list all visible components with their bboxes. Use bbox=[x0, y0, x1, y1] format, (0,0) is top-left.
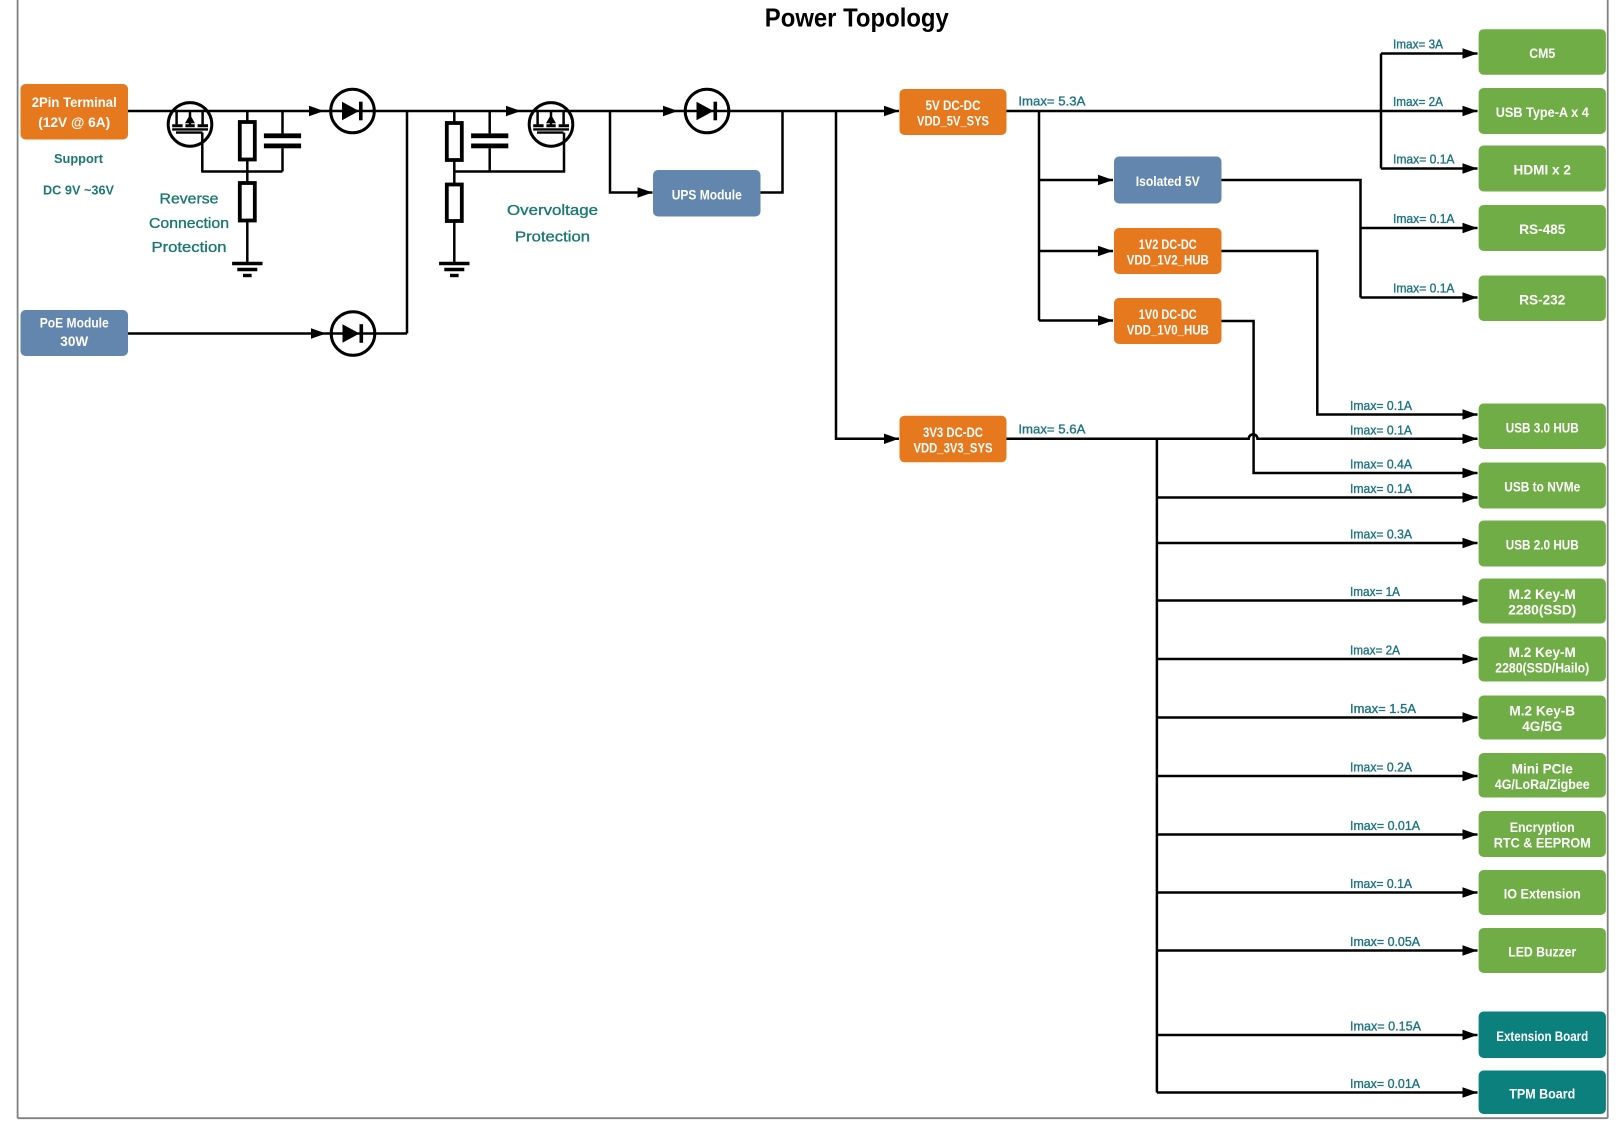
svg-text:Imax= 0.3A: Imax= 0.3A bbox=[1350, 527, 1412, 542]
resistor R2 bbox=[240, 183, 255, 221]
svg-text:Imax= 2A: Imax= 2A bbox=[1393, 94, 1443, 109]
svg-text:PoE Module: PoE Module bbox=[40, 316, 109, 331]
block HDMI x 2 bbox=[1479, 146, 1606, 192]
svg-text:(12V @ 6A): (12V @ 6A) bbox=[38, 115, 110, 130]
wire branch to RS-232 bbox=[1361, 296, 1478, 299]
wire R1-R2 link bbox=[246, 160, 249, 184]
arrowhead into USB to NVMe (2) bbox=[1463, 492, 1478, 502]
arrowhead into 5V DC-DC bbox=[884, 106, 899, 116]
wire 1V0 output to USB to NVMe bbox=[1222, 321, 1478, 473]
block USB Type-A x 4 bbox=[1479, 88, 1606, 134]
svg-text:M.2 Key-B: M.2 Key-B bbox=[1509, 704, 1575, 719]
svg-text:30W: 30W bbox=[60, 334, 88, 349]
svg-text:Imax= 0.1A: Imax= 0.1A bbox=[1393, 211, 1455, 226]
svg-text:Imax= 3A: Imax= 3A bbox=[1393, 37, 1443, 52]
arrowhead into USB 3.0 HUB (2) bbox=[1463, 434, 1478, 444]
wire branch to Extension Board bbox=[1157, 1034, 1478, 1037]
block IO Extension bbox=[1479, 870, 1606, 915]
wire R4 to ground bbox=[453, 221, 456, 264]
svg-text:Mini PCIe: Mini PCIe bbox=[1512, 761, 1574, 776]
svg-text:USB Type-A x 4: USB Type-A x 4 bbox=[1496, 105, 1589, 120]
wire branch to IO Extension bbox=[1157, 891, 1478, 894]
wire R1 stem top bbox=[246, 111, 249, 122]
svg-text:UPS Module: UPS Module bbox=[672, 187, 742, 202]
svg-text:4G/5G: 4G/5G bbox=[1522, 719, 1562, 734]
wire PoE module output bbox=[128, 332, 407, 335]
wire 5V fanout vertical bbox=[1038, 110, 1041, 321]
arrowhead into USB to NVMe (1) bbox=[1463, 468, 1478, 478]
arrowhead into 3V3 DC-DC bbox=[884, 434, 899, 444]
svg-text:Imax= 0.01A: Imax= 0.01A bbox=[1350, 1076, 1420, 1091]
svg-text:USB 3.0 HUB: USB 3.0 HUB bbox=[1506, 420, 1579, 435]
wire UPS return bbox=[761, 111, 783, 193]
arrowhead into LED Buzzer bbox=[1463, 945, 1478, 955]
svg-text:Imax= 0.15A: Imax= 0.15A bbox=[1350, 1019, 1421, 1034]
wire RC junction stage1 bbox=[201, 170, 282, 173]
svg-text:Imax= 0.1A: Imax= 0.1A bbox=[1350, 481, 1412, 496]
svg-text:Imax= 0.2A: Imax= 0.2A bbox=[1350, 760, 1412, 775]
arrowhead into UPS Module bbox=[638, 187, 653, 197]
svg-text:VDD_1V2_HUB: VDD_1V2_HUB bbox=[1127, 253, 1209, 268]
wire branch to CM5 bbox=[1381, 52, 1478, 55]
svg-text:RTC & EEPROM: RTC & EEPROM bbox=[1494, 836, 1591, 851]
block USB to NVMe bbox=[1479, 463, 1606, 509]
arrowhead into 1V0 DC-DC bbox=[1098, 315, 1113, 325]
wire branch to M.2 Key-B bbox=[1157, 716, 1478, 719]
block 3V3 DC-DC converter bbox=[900, 416, 1007, 463]
svg-text:Imax= 0.1A: Imax= 0.1A bbox=[1350, 398, 1412, 413]
wire branch to 1V0 DC-DC bbox=[1039, 319, 1113, 322]
svg-text:TPM Board: TPM Board bbox=[1509, 1086, 1575, 1101]
svg-text:Imax= 0.1A: Imax= 0.1A bbox=[1393, 152, 1455, 167]
svg-text:Imax= 0.4A: Imax= 0.4A bbox=[1350, 457, 1412, 472]
resistor R3 bbox=[447, 123, 462, 160]
block M.2 Key-M 2280(SSD) bbox=[1479, 579, 1606, 624]
svg-text:USB to NVMe: USB to NVMe bbox=[1504, 480, 1580, 495]
annotation Reverse Connection Protection bbox=[149, 191, 229, 257]
svg-text:Imax= 5.6A: Imax= 5.6A bbox=[1018, 422, 1085, 437]
resistor R1 bbox=[240, 122, 255, 160]
svg-text:Power Topology: Power Topology bbox=[765, 3, 949, 33]
svg-text:VDD_3V3_SYS: VDD_3V3_SYS bbox=[914, 441, 993, 456]
wire branch to M.2 Key-M SSD bbox=[1157, 599, 1478, 602]
block Mini PCIe 4G/LoRa/Zigbee bbox=[1479, 753, 1606, 798]
wire branch to Encryption bbox=[1157, 833, 1478, 836]
wire 3V3 feed bbox=[836, 111, 899, 439]
svg-text:RS-485: RS-485 bbox=[1519, 222, 1566, 237]
wire branch to 1V2 DC-DC bbox=[1039, 250, 1113, 253]
block CM5 bbox=[1479, 29, 1606, 74]
svg-text:2Pin Terminal: 2Pin Terminal bbox=[32, 95, 117, 110]
block 1V2 DC-DC converter bbox=[1114, 228, 1222, 274]
arrowhead into USB 3.0 HUB (1) bbox=[1463, 409, 1478, 419]
block RS-232 bbox=[1479, 276, 1606, 322]
wire branch to RS-485 bbox=[1361, 227, 1478, 230]
wire C1 stem bottom bbox=[281, 148, 284, 171]
svg-text:Imax= 1.5A: Imax= 1.5A bbox=[1350, 701, 1416, 716]
arrowhead into Encryption bbox=[1463, 829, 1478, 839]
wire 5V output bus bbox=[1007, 110, 1478, 113]
block 2Pin Terminal input bbox=[21, 84, 129, 140]
block UPS Module bbox=[653, 170, 761, 217]
block M.2 Key-B 4G/5G bbox=[1479, 696, 1606, 740]
wire UPS feed drop bbox=[610, 111, 653, 193]
block M.2 Key-M 2280(SSD/Hailo) bbox=[1479, 637, 1606, 682]
diode D3 PoE bbox=[331, 312, 375, 356]
svg-text:USB 2.0 HUB: USB 2.0 HUB bbox=[1506, 538, 1579, 553]
svg-text:Imax= 1A: Imax= 1A bbox=[1350, 584, 1400, 599]
arrowhead into M.2 Key-M SSD bbox=[1463, 595, 1478, 605]
svg-text:Reverse: Reverse bbox=[160, 191, 219, 208]
svg-text:Isolated 5V: Isolated 5V bbox=[1136, 174, 1200, 189]
arrowhead into 1V2 DC-DC bbox=[1098, 246, 1113, 256]
arrowhead into M.2 Key-M SSD/Hailo bbox=[1463, 654, 1478, 664]
svg-text:2280(SSD/Hailo): 2280(SSD/Hailo) bbox=[1495, 661, 1589, 676]
svg-text:Imax= 0.1A: Imax= 0.1A bbox=[1350, 422, 1412, 437]
arrowhead before diode D1 bbox=[309, 106, 324, 116]
svg-text:RS-232: RS-232 bbox=[1519, 292, 1566, 307]
arrowhead into USB Type-A x 4 bbox=[1463, 106, 1478, 116]
wire branch to Isolated 5V bbox=[1039, 179, 1113, 182]
svg-text:Connection: Connection bbox=[149, 215, 229, 232]
capacitor C2 bbox=[471, 133, 508, 148]
svg-text:VDD_5V_SYS: VDD_5V_SYS bbox=[917, 114, 989, 129]
svg-text:VDD_1V0_HUB: VDD_1V0_HUB bbox=[1127, 323, 1209, 338]
svg-text:Protection: Protection bbox=[152, 239, 227, 256]
arrowhead into TPM Board bbox=[1463, 1087, 1478, 1097]
svg-text:Imax= 5.3A: Imax= 5.3A bbox=[1018, 94, 1085, 109]
wire R3-R4 link bbox=[453, 160, 456, 185]
MOSFET Q2 overvoltage protection bbox=[529, 103, 573, 147]
svg-text:Imax= 0.1A: Imax= 0.1A bbox=[1350, 876, 1412, 891]
block RS-485 bbox=[1479, 205, 1606, 251]
svg-text:Imax= 0.1A: Imax= 0.1A bbox=[1393, 281, 1455, 296]
wire C1 stem top bbox=[281, 111, 284, 133]
arrowhead into HDMI x 2 bbox=[1463, 163, 1478, 173]
arrowhead into RS-232 bbox=[1463, 292, 1478, 302]
arrowhead into Isolated 5V bbox=[1098, 175, 1113, 185]
svg-text:Imax= 2A: Imax= 2A bbox=[1350, 643, 1400, 658]
svg-text:3V3 DC-DC: 3V3 DC-DC bbox=[923, 425, 983, 440]
block PoE Module bbox=[21, 310, 129, 356]
arrowhead into IO Extension bbox=[1463, 887, 1478, 897]
wire C2 stem top bbox=[488, 111, 491, 133]
wire 1V2 output to USB 3.0 HUB bbox=[1222, 251, 1478, 415]
wire C2 stem bottom bbox=[488, 148, 491, 171]
wire R2 to ground bbox=[246, 221, 249, 264]
block LED Buzzer bbox=[1479, 928, 1606, 973]
wire branch to HDMI x 2 bbox=[1381, 167, 1478, 170]
diode D2 bbox=[685, 89, 729, 133]
block Isolated 5V bbox=[1114, 157, 1222, 204]
svg-text:Imax= 0.01A: Imax= 0.01A bbox=[1350, 818, 1420, 833]
svg-text:Imax= 0.05A: Imax= 0.05A bbox=[1350, 934, 1420, 949]
wire R3 stem top bbox=[453, 111, 456, 123]
wire branch to USB 2.0 HUB bbox=[1157, 542, 1478, 545]
svg-text:Overvoltage: Overvoltage bbox=[507, 202, 598, 219]
wire main 12V bus bbox=[128, 110, 899, 113]
svg-text:LED Buzzer: LED Buzzer bbox=[1508, 945, 1577, 960]
svg-text:Protection: Protection bbox=[515, 229, 590, 246]
border frame bottom bbox=[18, 1117, 1608, 1119]
arrowhead into M.2 Key-B bbox=[1463, 712, 1478, 722]
ground stage1 bbox=[232, 264, 262, 276]
svg-text:M.2 Key-M: M.2 Key-M bbox=[1509, 645, 1576, 660]
wire branch to TPM Board bbox=[1157, 1091, 1478, 1094]
wire branch to USB to NVMe (2) bbox=[1157, 496, 1478, 499]
wire 3V3 trunk vertical bbox=[1156, 439, 1159, 1093]
svg-text:5V DC-DC: 5V DC-DC bbox=[926, 98, 981, 113]
border frame right bbox=[1607, 0, 1609, 1118]
arrowhead into USB 2.0 HUB bbox=[1463, 538, 1478, 548]
arrowhead into CM5 bbox=[1463, 48, 1478, 58]
wire 3V3 output bus with hop bbox=[1007, 434, 1478, 438]
ground stage2 bbox=[439, 264, 469, 276]
wire CM5/HDMI fanout vertical bbox=[1380, 54, 1383, 169]
arrowhead before Q2 bbox=[506, 106, 521, 116]
svg-text:IO Extension: IO Extension bbox=[1504, 887, 1581, 902]
wire branch to M.2 Key-M SSD/Hailo bbox=[1157, 658, 1478, 661]
block 5V DC-DC converter bbox=[900, 89, 1007, 135]
block Encryption RTC &amp; EEPROM bbox=[1479, 811, 1606, 857]
block Extension Board bbox=[1479, 1012, 1606, 1059]
svg-text:2280(SSD): 2280(SSD) bbox=[1508, 603, 1576, 618]
svg-text:Extension Board: Extension Board bbox=[1496, 1029, 1588, 1044]
arrowhead into Mini PCIe bbox=[1463, 771, 1478, 781]
resistor R4 bbox=[447, 185, 462, 222]
wire gate drop Q1 bbox=[201, 133, 204, 172]
wire branch to Mini PCIe bbox=[1157, 775, 1478, 778]
svg-text:1V0 DC-DC: 1V0 DC-DC bbox=[1139, 307, 1197, 322]
svg-text:DC 9V ~36V: DC 9V ~36V bbox=[43, 183, 114, 198]
wire junction drop to PoE diode output bbox=[406, 111, 409, 334]
svg-text:Encryption: Encryption bbox=[1510, 820, 1575, 835]
arrowhead into RS-485 bbox=[1463, 223, 1478, 233]
border frame left bbox=[17, 0, 19, 1118]
arrowhead before diode D3 bbox=[311, 328, 326, 338]
block USB 3.0 HUB bbox=[1479, 404, 1606, 450]
arrowhead before diode D2 bbox=[663, 106, 678, 116]
wire branch to LED Buzzer bbox=[1157, 949, 1478, 952]
MOSFET Q1 reverse protection bbox=[168, 103, 212, 147]
svg-text:M.2 Key-M: M.2 Key-M bbox=[1509, 587, 1576, 602]
svg-text:HDMI x 2: HDMI x 2 bbox=[1514, 163, 1572, 178]
wire RC junction stage2 bbox=[454, 170, 565, 173]
capacitor C1 bbox=[264, 133, 301, 148]
wire gate drop Q2 bbox=[563, 133, 566, 172]
block 1V0 DC-DC converter bbox=[1114, 298, 1222, 344]
diode D1 bbox=[331, 89, 375, 133]
wire Isolated 5V output bbox=[1222, 180, 1361, 298]
arrowhead into Extension Board bbox=[1463, 1030, 1478, 1040]
svg-text:CM5: CM5 bbox=[1529, 46, 1555, 61]
svg-text:4G/LoRa/Zigbee: 4G/LoRa/Zigbee bbox=[1495, 777, 1590, 792]
block TPM Board bbox=[1479, 1071, 1606, 1115]
block USB 2.0 HUB bbox=[1479, 521, 1606, 567]
svg-text:Support: Support bbox=[54, 151, 104, 166]
annotation Overvoltage Protection bbox=[507, 202, 598, 246]
svg-text:1V2 DC-DC: 1V2 DC-DC bbox=[1139, 237, 1197, 252]
